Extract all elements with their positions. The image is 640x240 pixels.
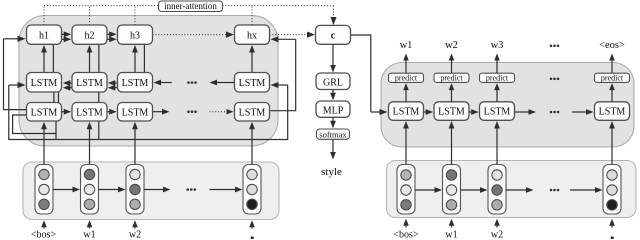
svg-text:LSTM: LSTM [438,107,465,118]
svg-text:<eos>: <eos> [599,40,625,51]
svg-text:w3: w3 [491,40,504,51]
svg-text:w1: w1 [83,229,95,239]
svg-text:LSTM: LSTM [239,78,266,89]
svg-text:w1: w1 [445,229,457,239]
svg-text:h2: h2 [85,30,95,41]
svg-text:predict: predict [440,73,463,82]
svg-text:hx: hx [247,30,257,41]
svg-text:LSTM: LSTM [599,107,626,118]
svg-text:LSTM: LSTM [393,107,420,118]
svg-text:w1: w1 [400,40,413,51]
svg-text:<bos>: <bos> [31,229,57,239]
svg-text:w2: w2 [129,229,141,239]
svg-text:LSTM: LSTM [122,108,149,119]
svg-text:LSTM: LSTM [122,78,149,89]
svg-text:LSTM: LSTM [31,78,58,89]
svg-text:<bos>: <bos> [393,229,419,239]
svg-text:GRL: GRL [323,77,343,88]
svg-text:LSTM: LSTM [31,108,58,119]
svg-text:w2: w2 [445,40,458,51]
svg-text:LSTM: LSTM [76,78,103,89]
svg-text:MLP: MLP [323,105,344,116]
svg-text:LSTM: LSTM [76,108,103,119]
svg-text:inner-attention: inner-attention [164,1,217,11]
svg-text:LSTM: LSTM [484,107,511,118]
svg-text:h1: h1 [39,30,49,41]
svg-text:style: style [321,166,342,178]
svg-text:w2: w2 [491,229,503,239]
svg-text:h3: h3 [130,30,140,41]
svg-text:softmax: softmax [319,130,347,140]
svg-text:predict: predict [395,73,418,82]
svg-text:predict: predict [486,73,509,82]
svg-text:c: c [331,31,336,42]
svg-text:predict: predict [601,73,624,82]
svg-text:LSTM: LSTM [239,108,266,119]
